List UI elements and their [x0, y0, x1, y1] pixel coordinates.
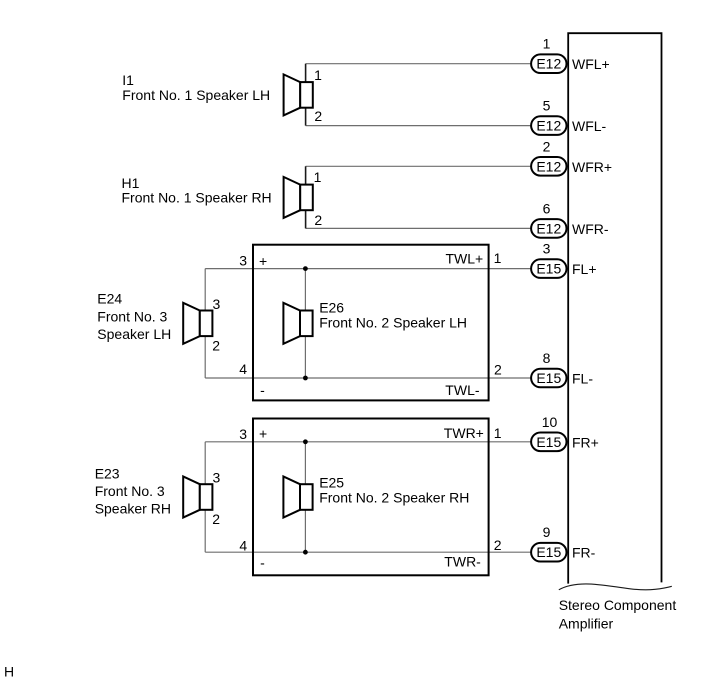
svg-text:TWL+: TWL+	[446, 250, 484, 266]
svg-text:TWL-: TWL-	[445, 382, 480, 398]
pin number box2-4	[239, 537, 247, 553]
svg-text:FR-: FR-	[572, 545, 596, 561]
svg-text:4: 4	[239, 361, 247, 377]
svg-text:+: +	[259, 253, 267, 269]
pin number box1-4	[239, 361, 247, 377]
svg-text:E25: E25	[319, 475, 344, 491]
svg-text:3: 3	[213, 470, 221, 486]
speaker E25	[283, 477, 312, 518]
wire E25 vertical link	[304, 442, 306, 552]
svg-text:2: 2	[494, 537, 502, 553]
net label FL+	[572, 261, 597, 277]
pin number 9	[543, 524, 551, 540]
svg-text:E12: E12	[536, 220, 561, 236]
svg-text:1: 1	[494, 425, 502, 441]
svg-text:1: 1	[314, 67, 322, 83]
svg-text:2: 2	[314, 108, 322, 124]
connector E15 pin3	[531, 259, 566, 278]
net label WFL+	[572, 56, 610, 72]
connector E15 pin9	[531, 543, 566, 562]
svg-text:H: H	[4, 664, 14, 680]
wire TWR+ E23 pin3 to E15 pin10	[205, 441, 531, 443]
svg-text:E15: E15	[536, 434, 561, 450]
svg-text:1: 1	[494, 250, 502, 266]
junction dot TWR+	[303, 439, 308, 444]
polarity + box1	[259, 253, 267, 269]
svg-text:2: 2	[212, 511, 220, 527]
pin number box1-1	[494, 250, 502, 266]
junction dot TWL-	[303, 376, 308, 381]
label H1	[122, 175, 272, 206]
net label FR+	[572, 434, 599, 450]
pin number E24-3	[213, 296, 221, 312]
svg-text:E15: E15	[536, 370, 561, 386]
polarity + box2	[259, 426, 267, 442]
net label TWL-	[445, 382, 480, 398]
connector E12 pin5	[531, 116, 566, 135]
svg-text:Front No. 2 Speaker LH: Front No. 2 Speaker LH	[319, 314, 467, 330]
pin number box1-3	[239, 253, 247, 269]
svg-text:3: 3	[239, 253, 247, 269]
label E23	[95, 466, 171, 517]
page marker H	[4, 664, 14, 680]
net label FL-	[572, 371, 593, 387]
wire I1 pin1 to E12 pin1	[306, 63, 532, 65]
svg-text:Front No. 3: Front No. 3	[97, 309, 167, 325]
pin number box2-1	[494, 425, 502, 441]
pin number I1-1	[314, 67, 322, 83]
wire TWR- E23 pin4 to E15 pin9	[205, 551, 531, 553]
pin number box2-2	[494, 537, 502, 553]
svg-text:E24: E24	[97, 291, 122, 307]
svg-text:6: 6	[543, 200, 551, 216]
pin number 2	[543, 138, 551, 154]
pin number 6	[543, 200, 551, 216]
svg-text:3: 3	[239, 426, 247, 442]
svg-text:WFR-: WFR-	[572, 221, 609, 237]
pin number E23-3	[213, 470, 221, 486]
svg-text:FL-: FL-	[572, 371, 593, 387]
svg-text:E23: E23	[95, 466, 120, 482]
speaker H1	[284, 166, 313, 228]
speaker box E25 assembly outline	[253, 419, 489, 576]
speaker E24	[183, 303, 212, 344]
connector E12 pin6	[531, 219, 566, 238]
speaker box E26 assembly outline	[253, 245, 489, 401]
svg-text:2: 2	[314, 212, 322, 228]
pin number box2-3	[239, 426, 247, 442]
connector E15 pin10	[531, 433, 566, 452]
svg-text:TWR-: TWR-	[444, 554, 481, 570]
wire I1 pin2 to E12 pin5	[306, 125, 532, 127]
svg-text:E15: E15	[536, 261, 561, 277]
svg-text:Front No. 1 Speaker LH: Front No. 1 Speaker LH	[122, 87, 270, 103]
net label WFL-	[572, 118, 607, 134]
svg-text:FL+: FL+	[572, 261, 597, 277]
polarity - box2	[260, 555, 265, 571]
svg-text:I1: I1	[122, 72, 134, 88]
svg-text:FR+: FR+	[572, 434, 599, 450]
pin number 10	[542, 414, 558, 430]
amplifier box	[568, 33, 661, 583]
pin number box1-2	[494, 361, 502, 377]
svg-text:Speaker LH: Speaker LH	[97, 326, 171, 342]
svg-text:Front No. 1 Speaker RH: Front No. 1 Speaker RH	[122, 190, 272, 206]
connector E12 pin2	[531, 157, 566, 176]
wire TWL- E24 pin4 to E15 pin8	[205, 377, 531, 379]
svg-text:Stereo Component: Stereo Component	[559, 597, 677, 613]
svg-text:E12: E12	[536, 158, 561, 174]
wire E26 vertical link	[304, 269, 306, 378]
svg-text:E12: E12	[536, 118, 561, 134]
label E24	[97, 291, 171, 343]
speaker I1	[284, 64, 313, 126]
connector E15 pin8	[531, 369, 566, 388]
svg-text:E26: E26	[319, 299, 344, 315]
svg-text:2: 2	[494, 361, 502, 377]
svg-text:3: 3	[543, 241, 551, 257]
svg-text:Front No. 2 Speaker RH: Front No. 2 Speaker RH	[319, 490, 469, 506]
svg-text:4: 4	[239, 537, 247, 553]
svg-text:-: -	[260, 382, 265, 398]
wire E24 vertical link	[204, 269, 206, 378]
pin number 3	[543, 241, 551, 257]
pin number I1-2	[314, 108, 322, 124]
net label WFR-	[572, 221, 609, 237]
svg-text:+: +	[259, 426, 267, 442]
wire H1 pin1 to E12 pin2	[306, 165, 532, 167]
svg-text:E15: E15	[536, 544, 561, 560]
label I1	[122, 72, 270, 103]
svg-text:WFL+: WFL+	[572, 56, 610, 72]
svg-text:WFL-: WFL-	[572, 118, 607, 134]
net label TWR-	[444, 554, 481, 570]
svg-text:9: 9	[543, 524, 551, 540]
amplifier box torn bottom edge	[559, 584, 672, 590]
svg-text:1: 1	[543, 36, 551, 52]
pin number H1-2	[314, 212, 322, 228]
net label TWR+	[444, 425, 484, 441]
svg-text:Speaker RH: Speaker RH	[95, 501, 171, 517]
svg-text:WFR+: WFR+	[572, 159, 612, 175]
connector E12 pin1	[531, 54, 566, 73]
svg-text:2: 2	[543, 138, 551, 154]
speaker E23	[183, 477, 212, 518]
pin number E24-2	[212, 337, 220, 353]
pin number H1-1	[314, 169, 322, 185]
svg-text:TWR+: TWR+	[444, 425, 484, 441]
net label FR-	[572, 545, 596, 561]
svg-text:8: 8	[543, 350, 551, 366]
pin number 8	[543, 350, 551, 366]
junction dot TWR-	[303, 550, 308, 555]
speaker E26	[283, 303, 312, 344]
svg-text:Amplifier: Amplifier	[559, 615, 614, 631]
net label WFR+	[572, 159, 612, 175]
wire E23 vertical link	[204, 442, 206, 552]
pin number E23-2	[212, 511, 220, 527]
label Stereo Component Amplifier	[559, 597, 677, 632]
svg-text:-: -	[260, 555, 265, 571]
svg-text:2: 2	[212, 337, 220, 353]
svg-text:Front No. 3: Front No. 3	[95, 483, 165, 499]
svg-text:H1: H1	[122, 175, 140, 191]
wire TWL+ E24 pin3 to E15 pin3	[205, 268, 531, 270]
svg-text:3: 3	[213, 296, 221, 312]
junction dot TWL+	[303, 266, 308, 271]
svg-text:5: 5	[543, 98, 551, 114]
wire H1 pin2 to E12 pin6	[306, 227, 532, 229]
svg-text:10: 10	[542, 414, 558, 430]
polarity - box1	[260, 382, 265, 398]
svg-text:1: 1	[314, 169, 322, 185]
label E25	[319, 475, 469, 506]
svg-text:E12: E12	[536, 56, 561, 72]
pin number 5	[543, 98, 551, 114]
pin number 1	[543, 36, 551, 52]
label E26	[319, 299, 467, 330]
net label TWL+	[446, 250, 484, 266]
